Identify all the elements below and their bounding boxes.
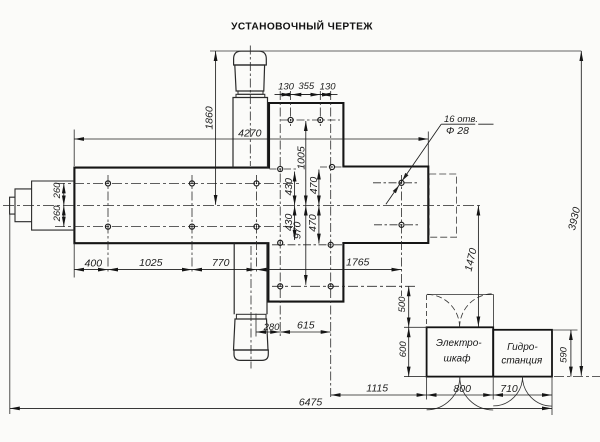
svg-text:станция: станция <box>501 356 543 367</box>
dim 470/470 line <box>318 170 320 244</box>
machine body outline <box>74 103 428 302</box>
dim 1860 line <box>215 51 217 205</box>
bolt holes bottom block <box>278 240 334 289</box>
top motor centerline <box>249 46 251 167</box>
svg-text:800: 800 <box>453 383 471 395</box>
leader 16 holes callout <box>441 123 493 125</box>
dim 4270 extension right <box>427 132 429 166</box>
bolt column 8 right block <box>401 175 403 296</box>
svg-text:400: 400 <box>85 258 103 270</box>
top motor flange 2 <box>236 94 265 97</box>
svg-text:590: 590 <box>559 346 570 363</box>
door arcs below electro cabinet <box>427 377 460 410</box>
bolt column 2 <box>191 175 193 273</box>
left protrusion small <box>10 197 15 214</box>
bolt column 1 <box>107 175 109 273</box>
svg-text:130: 130 <box>278 82 295 93</box>
dim 260 260 line <box>63 183 65 226</box>
phantom block right <box>429 174 456 237</box>
dim 6475 extension left <box>9 214 11 414</box>
svg-text:430: 430 <box>283 178 295 196</box>
svg-text:770: 770 <box>212 257 230 269</box>
top-edge hole row left <box>270 168 298 170</box>
dim 4270 line <box>74 138 428 140</box>
top-edge hole row right <box>320 166 343 168</box>
svg-text:Электро-: Электро- <box>436 338 482 349</box>
door arcs below hydro cabinet <box>493 377 522 406</box>
bolt column 7 / extension 615-1115 <box>330 91 332 397</box>
svg-text:260: 260 <box>52 205 63 223</box>
bottom block hole row upper <box>272 244 342 246</box>
bolt holes top block <box>278 117 335 171</box>
open door envelope above electro <box>427 294 494 296</box>
left protrusion large <box>32 181 75 230</box>
hole row lower <box>55 226 300 228</box>
dim 1115/800/710 extensions <box>426 377 428 400</box>
bolt hole center dots <box>107 119 402 287</box>
bottom block hole row lower <box>272 285 418 287</box>
top reference line (motor top level) <box>210 50 581 52</box>
leader arrows at hole <box>402 173 408 181</box>
svg-text:500: 500 <box>397 296 408 313</box>
cabinet hydro <box>493 330 552 377</box>
top motor flange <box>238 91 263 94</box>
dim 4270 extension left <box>73 130 75 167</box>
dim 500/600 line <box>408 286 410 376</box>
top motor cap <box>234 51 267 65</box>
dim 3930 line <box>580 51 582 376</box>
right block hole row lower <box>374 224 419 226</box>
dim 1005/970 line <box>305 121 307 285</box>
dim 1470 line <box>477 206 479 327</box>
dim 500/600 extensions <box>404 326 427 328</box>
svg-text:4270: 4270 <box>238 128 262 140</box>
svg-text:1025: 1025 <box>139 257 163 269</box>
bolt holes bed <box>105 181 259 229</box>
svg-text:280: 280 <box>263 322 281 333</box>
svg-text:260: 260 <box>52 182 63 200</box>
bolt column 3 <box>256 175 258 273</box>
svg-text:470: 470 <box>308 177 320 195</box>
door arcs above electro cabinet <box>427 294 460 327</box>
main centerline <box>3 205 481 207</box>
top block hole row <box>281 119 340 121</box>
dim 6475 line <box>10 407 552 409</box>
svg-text:600: 600 <box>398 341 409 358</box>
svg-text:шкаф: шкаф <box>444 353 472 365</box>
svg-text:130: 130 <box>320 82 337 93</box>
dim 590 extension <box>552 329 578 331</box>
svg-text:1765: 1765 <box>346 257 370 269</box>
top motor body <box>235 65 265 91</box>
dim 280/615 line <box>256 331 331 333</box>
svg-text:УСТАНОВОЧНЫЙ ЧЕРТЕЖ: УСТАНОВОЧНЫЙ ЧЕРТЕЖ <box>231 20 373 33</box>
svg-text:615: 615 <box>297 320 315 332</box>
cabinet bottom reference dashline <box>554 376 600 378</box>
bolt holes right block <box>399 180 404 227</box>
svg-text:Ф 28: Ф 28 <box>446 125 469 137</box>
bottom motor body <box>234 319 269 350</box>
dim 400/1025/770/1765 line <box>74 269 401 271</box>
svg-text:Гидро-: Гидро- <box>507 342 538 353</box>
dim 1115/800/710 line <box>331 394 552 396</box>
svg-text:1005: 1005 <box>296 146 308 170</box>
svg-text:710: 710 <box>500 383 518 395</box>
cabinet electro <box>427 327 494 376</box>
right block hole row upper <box>373 182 419 184</box>
svg-text:1115: 1115 <box>366 383 388 395</box>
leader diagonal <box>386 124 441 204</box>
svg-text:16 отв.: 16 отв. <box>444 114 478 125</box>
dim 400 extension <box>73 243 75 277</box>
bottom motor cap <box>234 350 268 360</box>
left protrusion middle <box>15 189 32 222</box>
bolt column 4 / extension 280-615 <box>279 91 281 337</box>
dim 280/615 extension <box>255 314 257 337</box>
svg-text:1860: 1860 <box>204 106 216 130</box>
svg-text:6475: 6475 <box>299 397 323 409</box>
top motor column <box>233 98 268 168</box>
hole row upper <box>55 182 300 184</box>
bolt column 6 <box>319 91 321 126</box>
dim 130 355 130 line <box>275 94 338 96</box>
bottom motor flange <box>236 314 266 319</box>
dim 590 line <box>570 330 572 377</box>
bottom motor column <box>234 243 267 314</box>
bottom motor centerline <box>250 246 252 369</box>
dim 430/430 line <box>294 172 296 241</box>
svg-text:470: 470 <box>307 214 319 232</box>
svg-text:355: 355 <box>298 81 315 92</box>
bolt column 5 <box>290 91 292 126</box>
svg-text:970: 970 <box>292 221 304 239</box>
